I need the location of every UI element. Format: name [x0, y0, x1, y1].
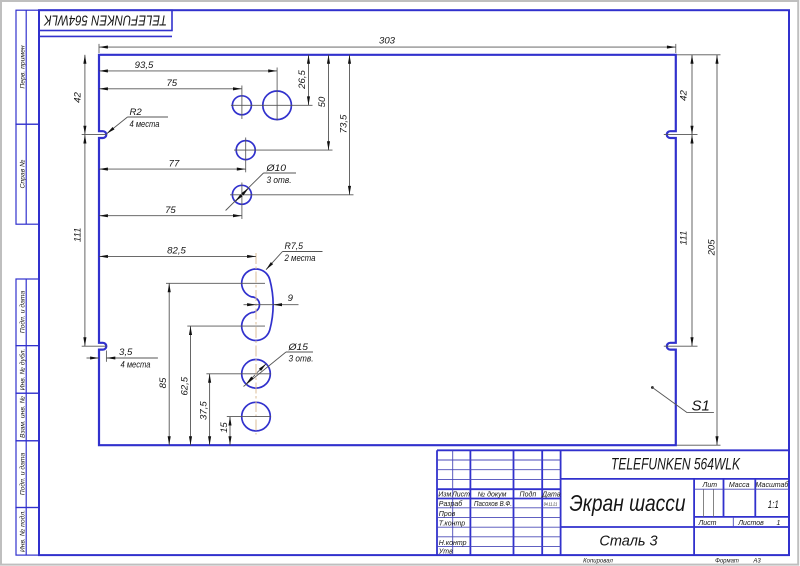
leader D10	[226, 173, 296, 211]
svg-text:Лист: Лист	[451, 492, 470, 499]
svg-text:Лист: Лист	[697, 520, 716, 527]
dimension 75 top	[99, 88, 242, 90]
svg-text:1: 1	[777, 520, 781, 527]
svg-text:Инв. № подл.: Инв. № подл.	[19, 510, 27, 552]
svg-text:Подп: Подп	[520, 491, 537, 499]
dimension 37,5	[209, 374, 211, 445]
svg-text:TELEFUNKEN 564WLK: TELEFUNKEN 564WLK	[43, 11, 167, 27]
left margin column: Взам. инв. № box	[16, 393, 39, 441]
svg-text:3 отв.: 3 отв.	[267, 175, 292, 186]
dimension 205	[716, 55, 718, 445]
leader S1	[651, 386, 654, 389]
svg-text:Изм: Изм	[438, 492, 451, 499]
svg-text:303: 303	[379, 35, 396, 46]
svg-text:37,5: 37,5	[199, 401, 210, 420]
svg-text:3,5: 3,5	[119, 347, 133, 358]
extension lines at slots / plate corners	[82, 134, 107, 136]
hole D15 mid-low	[242, 360, 271, 389]
tan dash-dot centerline	[255, 253, 257, 435]
svg-text:3 отв.: 3 отв.	[289, 354, 314, 365]
svg-text:Пров: Пров	[439, 511, 456, 518]
keyhole slot R7.5	[242, 269, 273, 340]
svg-text:Н.контр: Н.контр	[439, 540, 467, 547]
title block small labels	[438, 481, 790, 556]
dimension 15	[229, 417, 231, 446]
dimension 3,5 (outside arrows)	[87, 357, 100, 359]
svg-text:111: 111	[679, 231, 690, 246]
leader D15	[244, 352, 314, 387]
svg-text:04.11.21: 04.11.21	[544, 502, 558, 508]
hole D10 lower	[232, 185, 251, 204]
top-left rotated designation stamp	[39, 10, 172, 36]
dimension 42 right	[691, 55, 693, 135]
dimension 42 left	[84, 55, 86, 135]
svg-text:111: 111	[73, 228, 84, 243]
svg-text:42: 42	[73, 92, 84, 103]
left margin column: Инв. № дубл. box	[16, 346, 39, 394]
svg-text:№ докум: № докум	[478, 491, 507, 499]
svg-text:Утв: Утв	[438, 549, 453, 556]
svg-text:TELEFUNKEN 564WLK: TELEFUNKEN 564WLK	[611, 456, 741, 474]
left margin column: Справ. № box	[16, 124, 39, 224]
hole D15 bottom	[242, 402, 271, 431]
svg-text:Сталь 3: Сталь 3	[599, 534, 657, 550]
svg-text:77: 77	[169, 158, 180, 169]
title block outer borders	[437, 450, 789, 555]
dimension 111 right	[691, 135, 693, 347]
svg-text:1:1: 1:1	[768, 499, 779, 511]
hole D10 middle	[236, 141, 255, 160]
svg-text:73,5: 73,5	[338, 114, 349, 133]
leader R7,5	[266, 252, 323, 270]
svg-text:S1: S1	[692, 397, 710, 414]
left margin column: Перв. примен. box	[16, 10, 39, 555]
svg-text:Дата: Дата	[541, 492, 561, 499]
svg-text:Подп. и дата: Подп. и дата	[19, 453, 27, 496]
dimension 303	[85, 47, 717, 445]
svg-text:4 места: 4 места	[121, 360, 151, 371]
svg-text:4 места: 4 места	[130, 119, 160, 130]
hole D10 top	[232, 96, 251, 115]
svg-text:85: 85	[158, 377, 169, 388]
dimension 9 (outside arrows)	[244, 304, 257, 306]
dimension 77	[99, 168, 246, 170]
svg-text:Формат: Формат	[715, 559, 739, 565]
left margin labels	[19, 45, 27, 552]
svg-text:Взам. инв. №: Взам. инв. №	[20, 396, 27, 438]
svg-text:93,5: 93,5	[135, 60, 154, 71]
dimension 62,5	[190, 326, 192, 445]
svg-text:26,5: 26,5	[297, 70, 308, 90]
svg-text:Листов: Листов	[737, 520, 764, 527]
svg-text:50: 50	[317, 96, 328, 107]
svg-text:9: 9	[288, 293, 294, 304]
dimension 73,5	[349, 55, 351, 195]
svg-text:Масса: Масса	[729, 482, 750, 489]
svg-text:Ø10: Ø10	[265, 163, 286, 174]
dimension texts horizontal	[119, 35, 396, 358]
dimension 75 lower	[99, 215, 242, 217]
svg-text:Подп. и дата: Подп. и дата	[19, 291, 27, 334]
dimension 26,5	[308, 55, 310, 106]
hole D15 top	[263, 91, 292, 120]
dimension 93,5	[99, 70, 277, 72]
left margin column: Подп. и дата box 2	[16, 441, 39, 508]
svg-text:205: 205	[707, 239, 718, 257]
Lit cell thin dividers	[704, 489, 714, 517]
svg-text:75: 75	[165, 205, 176, 216]
svg-text:R2: R2	[130, 107, 143, 118]
below frame notes	[583, 559, 761, 565]
svg-text:Масштаб: Масштаб	[756, 481, 790, 489]
svg-text:R7,5: R7,5	[285, 241, 304, 252]
svg-text:А3: А3	[752, 559, 761, 565]
svg-text:Лит: Лит	[702, 482, 718, 489]
svg-text:82,5: 82,5	[167, 246, 186, 257]
svg-text:42: 42	[679, 90, 690, 101]
svg-text:75: 75	[166, 78, 177, 89]
svg-text:Перв. примен: Перв. примен	[20, 45, 27, 89]
chassis plate outline with 4 edge slots	[99, 55, 676, 445]
svg-text:Ø15: Ø15	[287, 342, 308, 353]
dimension 82,5	[99, 255, 256, 257]
svg-text:Инв. № дубл.: Инв. № дубл.	[19, 348, 27, 390]
left margin column: Подп. и дата box 1	[16, 279, 39, 346]
svg-text:Т.контр: Т.контр	[439, 520, 465, 527]
svg-text:15: 15	[219, 422, 230, 433]
title block thin lines	[437, 450, 789, 555]
svg-text:2 места: 2 места	[284, 253, 316, 264]
dimension texts vertical	[73, 70, 718, 433]
dimension 85	[168, 283, 170, 445]
svg-text:Разраб: Разраб	[439, 500, 463, 508]
svg-text:Экран шасси: Экран шасси	[570, 490, 686, 516]
leader R2	[107, 117, 168, 134]
dimension 50	[328, 55, 330, 150]
svg-text:62,5: 62,5	[179, 376, 190, 395]
svg-text:Копировал: Копировал	[583, 559, 613, 565]
centerline crosses (gray)	[82, 44, 721, 445]
left margin column: Инв. № подл. box	[16, 508, 39, 556]
svg-text:Справ №: Справ №	[20, 159, 27, 188]
svg-text:Пасохов В.Ф.: Пасохов В.Ф.	[474, 501, 512, 508]
dimension 111 left	[84, 135, 86, 347]
